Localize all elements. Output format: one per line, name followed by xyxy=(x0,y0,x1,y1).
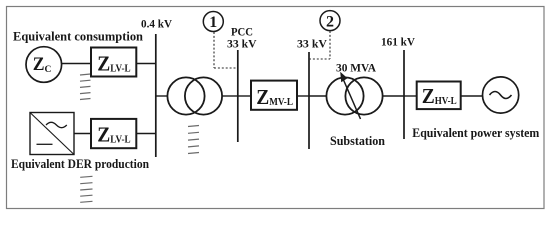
source ZC (equivalent consumption impedance) xyxy=(26,47,62,83)
DER inverter box xyxy=(30,113,74,155)
wire ZLV-L(2) to 0.4kV bus xyxy=(137,133,156,135)
dashed leader from marker 2 to 33kV bus xyxy=(309,31,330,59)
svg-text:33 kV: 33 kV xyxy=(297,37,327,51)
wire 161kV bus to ZHV-L xyxy=(404,95,417,97)
wire DER to ZLV-L(2) xyxy=(74,133,91,135)
AC source (equivalent power system) xyxy=(483,77,519,113)
bus 0.4 kV xyxy=(155,34,157,157)
marker circle 1 xyxy=(203,12,223,32)
ground hatch under DER label xyxy=(80,176,92,202)
svg-text:33 kV: 33 kV xyxy=(227,37,257,51)
wire bus to transformer T1 xyxy=(156,95,168,97)
impedance box ZLV-L (lower) xyxy=(91,119,136,148)
substation transformer T2 (33/161 kV) xyxy=(326,77,382,114)
wire T2 to 161kV bus xyxy=(383,95,404,97)
bus PCC 33 kV xyxy=(237,50,239,142)
impedance box ZLV-L (upper) xyxy=(91,48,136,77)
svg-text:30 MVA: 30 MVA xyxy=(336,60,376,74)
impedance box ZMV-L xyxy=(251,81,297,110)
bus 161 kV xyxy=(403,50,405,139)
wire T1 to PCC bus xyxy=(222,95,238,97)
svg-text:Substation: Substation xyxy=(330,134,385,148)
wire ZC to ZLV-L(1) xyxy=(62,63,91,65)
svg-text:1: 1 xyxy=(209,14,217,31)
impedance box ZHV-L xyxy=(417,82,461,110)
wire PCC bus to ZMV-L xyxy=(238,95,251,97)
ground hatch under ZC wire xyxy=(80,74,91,100)
transformer T1 (LV/MV) xyxy=(167,77,222,114)
wire ZMV-L to 33kV bus xyxy=(298,95,309,97)
tap-changer arrow through T2 xyxy=(340,72,360,119)
wire 33kV bus to substation transformer xyxy=(309,95,326,97)
svg-text:Equivalent DER production: Equivalent DER production xyxy=(11,157,149,171)
wire ZHV-L to AC source xyxy=(462,95,483,97)
svg-text:0.4 kV: 0.4 kV xyxy=(141,17,172,31)
bus 33 kV xyxy=(308,52,310,149)
dashed leader from marker 1 to PCC bus xyxy=(214,32,238,68)
svg-text:161 kV: 161 kV xyxy=(381,35,415,49)
ground hatch under T1 xyxy=(188,126,199,154)
marker circle 2 xyxy=(320,11,340,31)
svg-text:Equivalent consumption: Equivalent consumption xyxy=(13,29,143,43)
svg-text:2: 2 xyxy=(326,14,334,31)
wire ZLV-L(1) to 0.4kV bus xyxy=(137,63,156,65)
svg-text:Equivalent power system: Equivalent power system xyxy=(412,126,540,140)
